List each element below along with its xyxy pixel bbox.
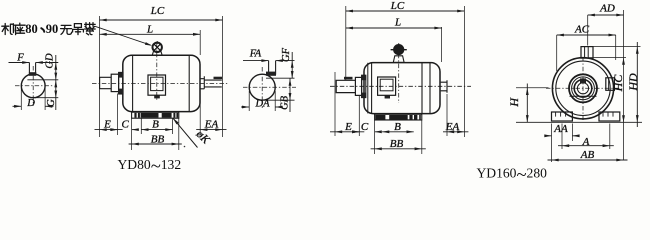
leader line from note to lifting eye <box>95 26 151 45</box>
svg-text:B: B <box>152 119 159 131</box>
extension lines bottom motor2 <box>334 72 336 136</box>
front view crosshair <box>546 87 621 89</box>
svg-text:B: B <box>394 121 401 133</box>
svg-text:GF: GF <box>281 47 292 62</box>
svg-text:LC: LC <box>390 0 405 12</box>
svg-text:DA: DA <box>255 99 271 110</box>
svg-text:AB: AB <box>580 149 595 161</box>
front right foot <box>599 112 620 121</box>
lifting eye bolt <box>153 43 162 52</box>
svg-text:C: C <box>122 119 130 131</box>
svg-text:FA: FA <box>249 49 262 60</box>
note text 机座80、90无吊攀 <box>2 23 25 34</box>
svg-text:LC: LC <box>150 5 165 17</box>
body vertical centerline <box>156 43 158 101</box>
svg-text:E: E <box>344 121 352 133</box>
motor2 axis centerline <box>330 85 471 87</box>
svg-text:GD: GD <box>45 53 56 69</box>
svg-text:L: L <box>146 24 153 36</box>
front left foot <box>552 112 573 121</box>
front terminal box right <box>606 78 615 91</box>
body joint line left <box>132 55 134 111</box>
motor2 bearing hub <box>362 75 366 97</box>
svg-text:C: C <box>361 121 369 133</box>
svg-text:AA: AA <box>553 123 568 135</box>
motor2 joint line right <box>421 63 423 114</box>
right shaft stub <box>200 76 221 89</box>
shaft-end detail circle DA <box>249 74 275 100</box>
svg-text:H: H <box>507 97 521 108</box>
motor2 right shaft stub <box>441 80 447 93</box>
bearing hub <box>119 72 123 94</box>
motor2 shaft shoulder <box>355 77 361 95</box>
front view outer circle <box>552 58 613 119</box>
detail centerline horizontal <box>15 85 54 87</box>
keyway bottom line GF/GB boundary <box>266 77 295 79</box>
motor axis centerline <box>92 82 228 84</box>
svg-text:AD: AD <box>599 3 615 15</box>
left shaft <box>100 77 112 88</box>
svg-text:YD160~280: YD160~280 <box>476 165 547 180</box>
svg-text:HC: HC <box>611 74 625 93</box>
keyway bottom line GD/G boundary <box>27 79 58 81</box>
front keyway notch <box>580 78 586 83</box>
keyway slot lines FA <box>268 61 270 77</box>
motor2 left shaft <box>336 80 355 92</box>
front hub circles <box>569 74 597 102</box>
keyway slot lines <box>28 63 30 76</box>
motor2 lifting eye bolt <box>394 45 404 55</box>
svg-text:BB: BB <box>151 133 165 145</box>
motor2 vertical centerline <box>398 44 400 103</box>
motor2 foot plate <box>375 114 422 120</box>
shaft-end detail circle D <box>21 74 45 98</box>
detail DA centerline horizontal <box>243 86 296 88</box>
motor2 terminal box <box>378 77 396 95</box>
front hub chord line <box>570 95 597 97</box>
svg-text:80: 80 <box>25 22 38 36</box>
leader phi-K to foot hole <box>173 118 198 148</box>
svg-text:AC: AC <box>574 24 590 36</box>
motor2 body <box>364 63 440 114</box>
front lifting plate <box>581 47 593 59</box>
body joint line right <box>188 55 190 111</box>
extension lines bottom YD80 <box>117 94 119 136</box>
svg-text:D: D <box>26 98 35 109</box>
shaft shoulder <box>111 74 118 91</box>
svg-text:90: 90 <box>46 22 59 36</box>
svg-text:L: L <box>394 17 401 29</box>
front view rim circle <box>556 61 610 115</box>
detail centerline vertical <box>32 66 34 106</box>
foot plate <box>132 112 179 118</box>
terminal box <box>148 75 166 95</box>
detail DA centerline vertical <box>261 67 263 108</box>
ground base line <box>516 121 642 123</box>
motor2 joint line left <box>367 63 369 114</box>
motor body YD80-132 <box>123 55 200 111</box>
